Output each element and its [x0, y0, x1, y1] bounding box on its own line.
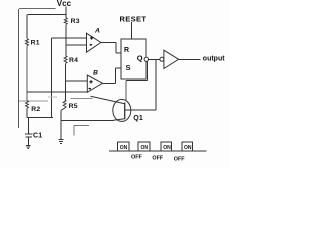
- svg-text:Vcc: Vcc: [57, 0, 72, 8]
- svg-text:A: A: [94, 28, 100, 35]
- svg-text:OFF: OFF: [131, 154, 142, 160]
- svg-text:B: B: [93, 70, 98, 77]
- svg-text:R1: R1: [31, 39, 40, 46]
- svg-text:R3: R3: [71, 18, 80, 25]
- svg-text:OFF: OFF: [174, 156, 185, 162]
- svg-text:ON: ON: [120, 145, 128, 151]
- svg-text:R: R: [124, 47, 129, 54]
- svg-text:OFF: OFF: [152, 155, 163, 161]
- svg-text:RESET: RESET: [120, 14, 147, 23]
- svg-text:output: output: [203, 55, 225, 62]
- svg-text:R2: R2: [31, 106, 40, 113]
- svg-text:Q1: Q1: [133, 115, 143, 122]
- svg-text:C1: C1: [33, 132, 42, 139]
- svg-text:ON: ON: [184, 145, 192, 151]
- svg-text:R5: R5: [69, 103, 78, 110]
- svg-text:S: S: [126, 63, 131, 72]
- svg-text:ON: ON: [141, 145, 149, 151]
- svg-text:R4: R4: [69, 57, 78, 64]
- svg-text:Q: Q: [137, 54, 143, 63]
- svg-text:ON: ON: [163, 145, 171, 151]
